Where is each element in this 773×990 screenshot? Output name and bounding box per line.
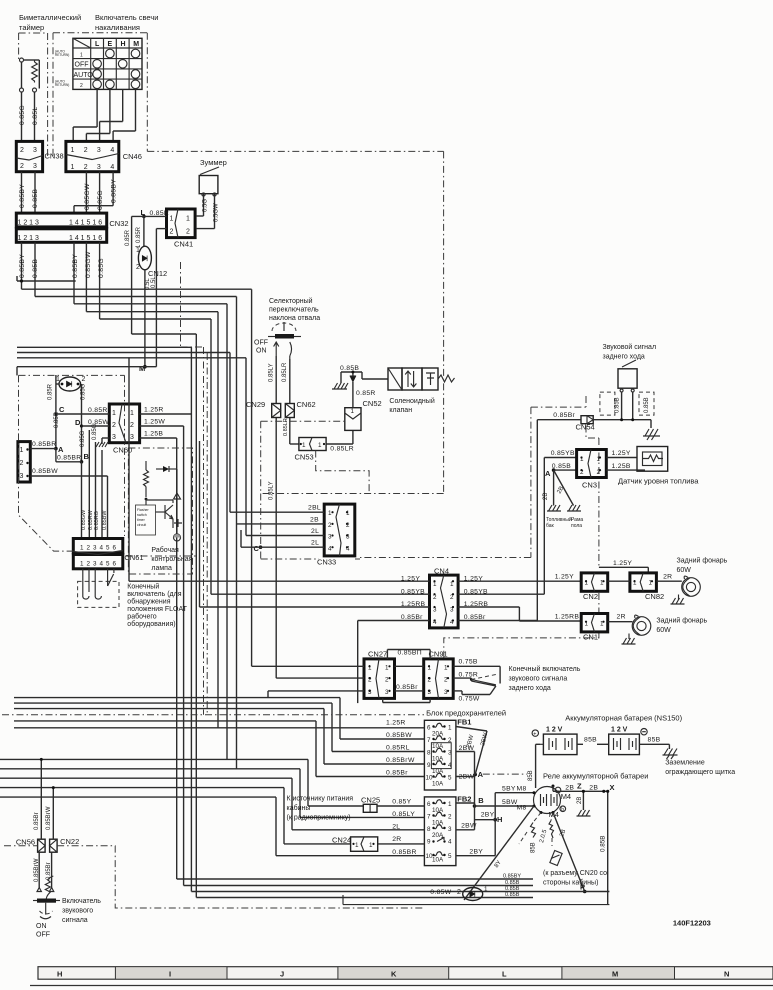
svg-text:3: 3	[448, 826, 452, 833]
svg-text:1: 1	[351, 408, 355, 415]
svg-text:CN53: CN53	[295, 453, 314, 462]
svg-text:60W: 60W	[677, 567, 692, 574]
svg-text:Блок предохранителей: Блок предохранителей	[426, 709, 506, 718]
svg-text:Соленоидный: Соленоидный	[389, 397, 434, 405]
svg-text:2: 2	[328, 522, 332, 529]
svg-text:CN2: CN2	[583, 592, 598, 601]
svg-text:I: I	[169, 970, 171, 979]
svg-text:timer: timer	[137, 518, 146, 522]
svg-text:0.85B: 0.85B	[505, 892, 520, 898]
svg-text:0.85LY: 0.85LY	[392, 811, 415, 818]
svg-text:пола: пола	[571, 523, 582, 529]
svg-text:0.85LR: 0.85LR	[282, 362, 288, 382]
svg-text:0.85BY: 0.85BY	[19, 184, 26, 208]
svg-text:0.85Y: 0.85Y	[392, 799, 411, 806]
svg-text:0.85BW: 0.85BW	[102, 510, 108, 530]
svg-text:2BY: 2BY	[481, 812, 495, 819]
svg-text:J: J	[280, 970, 284, 979]
svg-text:К источнику питания: К источнику питания	[287, 796, 354, 803]
svg-text:9: 9	[427, 762, 431, 769]
svg-text:+: +	[533, 732, 536, 738]
svg-text:1 2 1 3: 1 2 1 3	[18, 220, 40, 227]
svg-text:2B: 2B	[589, 785, 598, 792]
svg-text:1: 1	[186, 216, 190, 223]
svg-text:3: 3	[33, 163, 37, 170]
svg-text:5: 5	[106, 545, 110, 552]
svg-text:0.85B: 0.85B	[644, 397, 650, 413]
svg-text:2: 2	[84, 164, 88, 171]
svg-text:0.85R: 0.85R	[356, 390, 376, 397]
svg-text:10A: 10A	[432, 781, 444, 788]
svg-text:4: 4	[110, 164, 114, 171]
svg-text:0.85B: 0.85B	[32, 189, 39, 208]
svg-text:10A: 10A	[432, 820, 444, 827]
svg-text:1 2 V: 1 2 V	[546, 727, 563, 734]
svg-text:переключатель: переключатель	[269, 307, 319, 314]
svg-text:2: 2	[385, 677, 389, 684]
svg-text:0.85G: 0.85G	[19, 105, 26, 125]
svg-text:Рабочая: Рабочая	[151, 546, 179, 554]
svg-text:0.85W: 0.85W	[430, 889, 451, 896]
svg-text:1 4 1 5 1 6: 1 4 1 5 1 6	[69, 220, 102, 227]
svg-text:Задний фонарь: Задний фонарь	[677, 557, 728, 565]
svg-text:0.85BR: 0.85BR	[32, 441, 56, 448]
svg-text:2BL: 2BL	[308, 505, 321, 512]
svg-text:L: L	[502, 970, 507, 979]
svg-text:CN27: CN27	[368, 650, 387, 659]
svg-text:наклона отвала: наклона отвала	[269, 315, 320, 322]
svg-text:B: B	[84, 452, 90, 461]
svg-text:CN22: CN22	[60, 837, 79, 846]
svg-text:5: 5	[448, 775, 452, 782]
svg-text:CN61: CN61	[124, 553, 143, 562]
svg-text:H: H	[57, 970, 62, 979]
svg-text:A: A	[545, 469, 551, 478]
svg-text:Селекторный: Селекторный	[269, 297, 313, 305]
svg-text:2: 2	[186, 229, 190, 236]
svg-text:4: 4	[100, 545, 104, 552]
svg-text:оборудования): оборудования)	[127, 620, 175, 628]
svg-text:L: L	[95, 41, 100, 48]
svg-text:3: 3	[93, 545, 97, 552]
svg-text:(к радиоприемнику): (к радиоприемнику)	[287, 815, 351, 822]
svg-text:3: 3	[97, 147, 101, 154]
svg-text:Flasher: Flasher	[137, 508, 150, 512]
svg-text:1 0.85R: 1 0.85R	[136, 226, 142, 248]
svg-text:CN56: CN56	[16, 838, 35, 847]
svg-text:Звуковой сигнал: Звуковой сигнал	[603, 343, 657, 351]
svg-text:4: 4	[448, 839, 452, 846]
svg-text:2: 2	[170, 229, 174, 236]
svg-text:0.85R: 0.85R	[48, 383, 54, 400]
svg-text:CN12: CN12	[148, 269, 167, 278]
svg-text:звукового сигнала: звукового сигнала	[509, 676, 568, 683]
svg-text:2: 2	[136, 264, 140, 271]
svg-text:2B: 2B	[577, 797, 583, 804]
svg-text:CN82: CN82	[645, 592, 664, 601]
svg-text:D: D	[75, 418, 81, 427]
svg-text:2B: 2B	[310, 517, 319, 524]
svg-text:контрольная: контрольная	[151, 556, 192, 563]
svg-text:2B: 2B	[565, 785, 574, 792]
svg-text:0.85B: 0.85B	[32, 259, 39, 278]
svg-text:1: 1	[448, 801, 452, 808]
svg-text:ограждающего щитка: ограждающего щитка	[665, 769, 735, 776]
svg-text:2: 2	[457, 889, 461, 896]
svg-text:0.85BY: 0.85BY	[111, 179, 118, 203]
svg-text:C: C	[59, 405, 65, 414]
svg-text:Датчик уровня топлива: Датчик уровня топлива	[618, 477, 699, 486]
svg-text:0.85G: 0.85G	[81, 383, 87, 400]
svg-text:1: 1	[20, 447, 24, 454]
svg-text:9: 9	[427, 839, 431, 846]
svg-text:1: 1	[80, 53, 83, 59]
svg-text:3: 3	[33, 147, 37, 154]
svg-text:2B: 2B	[543, 493, 549, 500]
svg-text:Включатель свечи: Включатель свечи	[95, 13, 158, 22]
svg-text:Z: Z	[577, 782, 582, 791]
svg-text:7: 7	[427, 737, 431, 744]
svg-text:4: 4	[328, 546, 332, 553]
svg-text:Биметаллический: Биметаллический	[19, 13, 81, 22]
svg-text:RETURN): RETURN)	[55, 83, 69, 87]
svg-text:2R: 2R	[663, 574, 672, 581]
svg-text:включатель (для: включатель (для	[127, 591, 181, 598]
svg-text:1: 1	[170, 216, 174, 223]
svg-text:10A: 10A	[432, 743, 444, 750]
svg-text:0.85BR: 0.85BR	[392, 849, 416, 856]
svg-text:X: X	[610, 783, 615, 792]
svg-text:0.85GW: 0.85GW	[85, 251, 92, 278]
svg-text:M: M	[133, 41, 139, 48]
svg-text:1: 1	[80, 545, 84, 552]
svg-text:RETURN): RETURN)	[55, 53, 69, 57]
svg-text:CN54: CN54	[576, 423, 595, 432]
svg-text:0.85YB: 0.85YB	[551, 450, 575, 457]
svg-text:10A: 10A	[432, 756, 444, 763]
svg-text:B: B	[478, 796, 484, 805]
svg-text:1: 1	[328, 510, 332, 517]
svg-text:5BY: 5BY	[502, 786, 516, 793]
svg-text:0.85R: 0.85R	[88, 407, 108, 414]
svg-text:ON: ON	[36, 923, 47, 930]
svg-text:0.75B: 0.75B	[459, 659, 478, 666]
svg-text:10A: 10A	[432, 807, 444, 814]
svg-text:K: K	[391, 970, 397, 979]
svg-text:Конечный: Конечный	[127, 583, 159, 591]
svg-text:1 2 1 3: 1 2 1 3	[18, 235, 40, 242]
svg-text:A: A	[58, 445, 64, 454]
svg-text:0.85BгW: 0.85BгW	[46, 806, 52, 830]
svg-text:звукового: звукового	[62, 908, 93, 915]
svg-text:0.85BW: 0.85BW	[386, 732, 412, 739]
svg-text:10A: 10A	[432, 768, 444, 775]
svg-text:Топливный: Топливный	[546, 516, 572, 523]
svg-text:0.85Bг: 0.85Bг	[34, 811, 40, 830]
svg-text:1: 1	[385, 665, 389, 672]
svg-text:1 4 1 5 1 6: 1 4 1 5 1 6	[69, 235, 102, 242]
svg-text:лампа: лампа	[151, 565, 172, 572]
svg-text:0.85LR: 0.85LR	[330, 446, 354, 453]
svg-text:Задний фонарь: Задний фонарь	[656, 617, 707, 625]
svg-text:2: 2	[80, 83, 83, 89]
svg-text:таймер: таймер	[19, 23, 44, 32]
svg-text:3: 3	[93, 561, 97, 568]
svg-text:клапан: клапан	[389, 407, 412, 414]
svg-text:0.85G: 0.85G	[97, 190, 104, 210]
svg-text:1.25R: 1.25R	[144, 407, 164, 414]
svg-text:1: 1	[71, 147, 75, 154]
svg-text:2: 2	[20, 163, 24, 170]
svg-text:3: 3	[112, 434, 116, 441]
svg-text:1: 1	[448, 725, 452, 732]
svg-text:6: 6	[113, 545, 117, 552]
svg-text:2: 2	[20, 147, 24, 154]
svg-text:2: 2	[448, 814, 452, 821]
svg-text:0.5L: 0.5L	[145, 278, 151, 290]
svg-text:CN52: CN52	[363, 399, 382, 408]
svg-text:1.25B: 1.25B	[144, 431, 163, 438]
svg-text:0.85BгW: 0.85BгW	[386, 757, 415, 764]
svg-text:85B: 85B	[648, 737, 661, 744]
svg-text:1.25RB: 1.25RB	[555, 614, 580, 621]
svg-text:0.85Bг: 0.85Bг	[386, 770, 408, 777]
svg-text:Включатель: Включатель	[62, 898, 101, 905]
svg-text:1: 1	[302, 442, 306, 449]
svg-text:4: 4	[100, 561, 104, 568]
svg-text:2: 2	[130, 422, 134, 429]
svg-text:0.85BY: 0.85BY	[19, 254, 26, 278]
svg-text:CN29: CN29	[246, 400, 265, 409]
svg-text:FB1: FB1	[457, 718, 471, 727]
svg-text:Конечный включатель: Конечный включатель	[509, 665, 581, 673]
svg-text:1: 1	[369, 842, 373, 849]
svg-text:M4: M4	[561, 792, 571, 801]
svg-text:обнаружения: обнаружения	[127, 598, 170, 606]
svg-text:1: 1	[346, 510, 350, 517]
svg-text:CN1: CN1	[583, 633, 598, 642]
svg-text:0.85L: 0.85L	[32, 106, 39, 125]
svg-text:накаливания: накаливания	[95, 23, 140, 32]
svg-text:switch: switch	[137, 513, 147, 517]
svg-text:H: H	[121, 41, 126, 48]
svg-text:0.5GW: 0.5GW	[213, 203, 219, 222]
svg-text:0.85G: 0.85G	[80, 430, 86, 447]
svg-text:AUTO: AUTO	[74, 72, 94, 79]
svg-text:Реле аккумуляторной батареи: Реле аккумуляторной батареи	[543, 772, 648, 781]
svg-text:FB2: FB2	[457, 795, 471, 804]
svg-text:M8: M8	[517, 786, 527, 793]
svg-text:6: 6	[113, 561, 117, 568]
svg-text:CN32: CN32	[109, 219, 128, 228]
svg-text:1.25B: 1.25B	[612, 463, 631, 470]
svg-text:0.85B: 0.85B	[599, 836, 606, 852]
svg-text:0.85BY: 0.85BY	[503, 874, 521, 880]
svg-text:Зуммер: Зуммер	[200, 158, 227, 167]
svg-text:2: 2	[20, 460, 24, 467]
svg-text:2: 2	[84, 147, 88, 154]
svg-text:2: 2	[87, 545, 91, 552]
svg-text:85B: 85B	[528, 770, 534, 781]
svg-text:60W: 60W	[656, 627, 671, 634]
svg-text:0.85Bг: 0.85Bг	[553, 412, 575, 419]
svg-text:1 2 V: 1 2 V	[611, 727, 628, 734]
svg-text:1.25Y: 1.25Y	[612, 450, 631, 457]
svg-text:C: C	[254, 544, 260, 553]
svg-text:A: A	[478, 770, 484, 779]
svg-text:OFF: OFF	[36, 932, 50, 939]
svg-text:Заземление: Заземление	[665, 760, 705, 767]
svg-text:6: 6	[427, 801, 431, 808]
svg-text:20A: 20A	[432, 832, 444, 839]
svg-text:3: 3	[328, 534, 332, 541]
svg-text:0.85LY: 0.85LY	[269, 363, 275, 382]
svg-text:сигнала: сигнала	[62, 917, 88, 924]
svg-text:(к разъему CN20 со: (к разъему CN20 со	[543, 870, 607, 877]
svg-text:CN24: CN24	[332, 836, 351, 845]
svg-text:1.25R: 1.25R	[386, 720, 406, 727]
svg-text:Аккумуляторная батарея (NS150): Аккумуляторная батарея (NS150)	[565, 714, 682, 723]
svg-text:2: 2	[87, 561, 91, 568]
svg-text:140F12203: 140F12203	[673, 919, 711, 928]
svg-text:CN46: CN46	[123, 152, 142, 161]
svg-text:2: 2	[112, 422, 116, 429]
svg-text:1: 1	[318, 442, 322, 449]
svg-text:3: 3	[130, 434, 134, 441]
svg-text:2L: 2L	[311, 528, 319, 535]
svg-text:M: M	[612, 970, 618, 979]
svg-text:2L: 2L	[392, 824, 400, 831]
svg-text:1: 1	[80, 561, 84, 568]
svg-text:1.25Y: 1.25Y	[613, 560, 632, 567]
svg-text:0.85RG: 0.85RG	[94, 511, 100, 530]
svg-text:7: 7	[427, 814, 431, 821]
svg-text:ON: ON	[256, 348, 267, 355]
svg-text:2: 2	[82, 376, 86, 383]
svg-text:3: 3	[385, 689, 389, 696]
svg-text:H: H	[497, 815, 502, 824]
svg-text:0.85BY: 0.85BY	[72, 254, 79, 278]
svg-text:0.85BW: 0.85BW	[32, 468, 58, 475]
svg-text:CN62: CN62	[297, 400, 316, 409]
svg-text:CN25: CN25	[361, 796, 380, 805]
svg-text:0.75W: 0.75W	[459, 696, 480, 703]
svg-text:1.25Y: 1.25Y	[555, 574, 574, 581]
svg-text:0.85G: 0.85G	[98, 258, 105, 278]
svg-text:OFF: OFF	[254, 340, 268, 347]
svg-text:0.85GW: 0.85GW	[84, 183, 91, 210]
svg-text:8: 8	[427, 826, 431, 833]
svg-text:0.85BR: 0.85BR	[57, 455, 81, 462]
svg-text:85B: 85B	[531, 842, 537, 853]
svg-text:b: b	[561, 807, 564, 813]
svg-text:CN41: CN41	[174, 240, 193, 249]
svg-text:положения FLOAT: положения FLOAT	[127, 606, 187, 613]
svg-text:OFF: OFF	[75, 62, 89, 69]
svg-text:CN3: CN3	[582, 481, 597, 490]
svg-text:1: 1	[136, 247, 140, 254]
svg-text:4: 4	[110, 147, 114, 154]
svg-text:заднего хода: заднего хода	[603, 354, 645, 361]
svg-text:1: 1	[112, 410, 116, 417]
svg-text:0.85GW: 0.85GW	[81, 509, 87, 530]
svg-text:85B: 85B	[584, 737, 597, 744]
svg-text:0.85Bг: 0.85Bг	[396, 684, 418, 691]
svg-text:1: 1	[484, 886, 488, 893]
svg-text:рабочего: рабочего	[127, 613, 156, 621]
svg-text:0.85BП: 0.85BП	[398, 650, 422, 657]
svg-text:E: E	[108, 41, 113, 48]
svg-text:заднего хода: заднего хода	[509, 685, 551, 692]
svg-text:2L: 2L	[311, 540, 319, 547]
svg-text:0.85R: 0.85R	[125, 229, 131, 246]
svg-text:5: 5	[448, 853, 452, 860]
svg-text:10A: 10A	[432, 857, 444, 864]
svg-text:20A: 20A	[432, 731, 444, 738]
svg-text:1: 1	[130, 410, 134, 417]
svg-text:3: 3	[97, 164, 101, 171]
svg-text:N: N	[724, 970, 729, 979]
svg-text:3: 3	[20, 473, 24, 480]
svg-text:2BY: 2BY	[469, 849, 483, 856]
svg-text:1.25W: 1.25W	[144, 419, 165, 426]
svg-text:бак: бак	[546, 523, 555, 529]
svg-text:CN33: CN33	[317, 558, 336, 567]
svg-text:M8: M8	[517, 805, 527, 812]
svg-text:0.85RL: 0.85RL	[386, 745, 410, 752]
svg-text:8: 8	[427, 750, 431, 757]
svg-text:5: 5	[106, 561, 110, 568]
svg-text:кабины: кабины	[287, 804, 311, 812]
svg-text:2R: 2R	[617, 614, 626, 621]
svg-text:0.85LY: 0.85LY	[269, 481, 275, 500]
svg-text:CN91: CN91	[429, 650, 448, 659]
svg-text:0.85B: 0.85B	[340, 365, 359, 372]
svg-text:0.5G: 0.5G	[202, 199, 208, 212]
svg-text:6: 6	[427, 725, 431, 732]
svg-text:стороны кабины): стороны кабины)	[543, 879, 598, 887]
svg-text:circuit: circuit	[137, 523, 146, 527]
svg-text:2R: 2R	[392, 836, 401, 843]
svg-text:0.85BгW: 0.85BгW	[34, 858, 40, 882]
svg-text:1: 1	[355, 842, 359, 849]
svg-text:1: 1	[71, 164, 75, 171]
